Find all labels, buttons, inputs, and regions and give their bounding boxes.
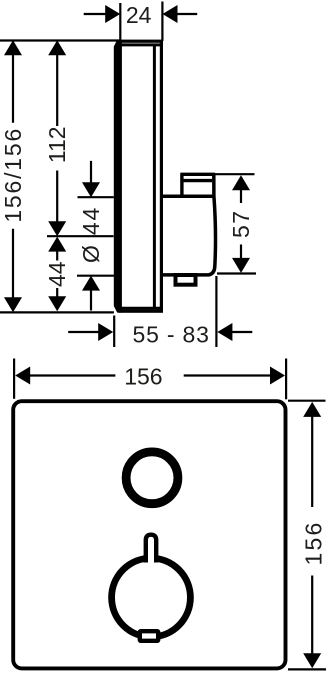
front view: handle top marker pill [146,535,156,563]
side view: escutcheon outer rectangle [120,41,161,311]
front view: handle bottom tab [140,631,158,641]
dimension 112: line and arrows [56,54,58,222]
side view: escutcheon inner offset lines [121,44,160,309]
extension line: plate top [0,39,120,41]
extension line: front right top horizontal [288,400,326,402]
svg-text:156: 156 [300,521,326,566]
extension line: valve centerline [47,235,114,237]
extension line: front top-right vertical [285,359,287,400]
extension line: 24 left vertical [119,3,121,41]
side view: valve body main [161,174,216,275]
extension line: valve bottom tangent [77,275,114,277]
dimension front 156 right: line and arrows [311,416,313,655]
extension line: 57 bottom [217,272,256,274]
dimension 57: line and arrows [240,189,242,259]
extension line: 55-83 right vertical [215,276,217,347]
svg-text:156/156: 156/156 [0,127,26,223]
extension line: front top-left vertical [13,359,15,399]
side view: valve bottom tab [176,275,196,285]
dimension 156/156: line and arrows [12,54,14,299]
svg-text:44: 44 [44,261,70,287]
svg-text:57: 57 [228,209,254,238]
dimension 44: label [44,261,70,287]
dimension D44: label [78,206,104,263]
svg-text:156: 156 [124,364,162,390]
svg-text:112: 112 [44,126,70,163]
dimension D44: arrows outside [90,161,92,311]
svg-text:24: 24 [126,2,152,28]
dimension 44: line and arrows [56,252,58,298]
front view: select button ring [126,452,178,504]
extension line: 57 top [215,173,255,175]
dimension 24: right arrow and tail [176,13,198,15]
dimension 156/156: label [0,127,26,223]
extension line: front right bottom horizontal [288,668,326,670]
side view: glass plate bar [114,40,122,313]
svg-text:55 - 83: 55 - 83 [132,321,209,347]
front view: square plate [13,401,285,668]
front view: thermostat handle ring [112,558,191,637]
extension line: plate bottom [0,311,114,313]
extension line: 24 right vertical [161,2,163,42]
dimension front 156 top: line and arrows [29,374,271,376]
svg-text:Ø 44: Ø 44 [78,206,104,263]
extension line: valve top tangent [78,196,114,198]
dimension front 156 right: label [300,521,326,566]
dimension 55-83: arrows outside [68,331,252,333]
extension line: 55-83 left vertical [113,316,115,348]
side view: valve body step top [180,174,215,196]
dimension 112: label [44,126,70,163]
dimension 57: label [228,209,254,238]
dimension 24: left arrow and tail [84,13,107,15]
